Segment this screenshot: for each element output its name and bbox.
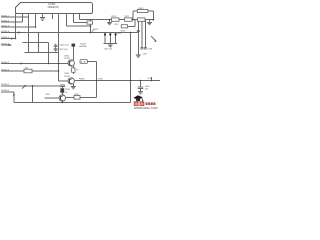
ground GND3 x149.5 (147, 22, 152, 24)
ground GND5 emitter V305 (71, 87, 76, 89)
ground GND4 x138.3 (136, 55, 141, 57)
ground GND6 under C340 (138, 92, 143, 94)
svg-text:C340: C340 (145, 86, 150, 88)
wire v x138.3 (137, 20, 139, 55)
svg-text:C304 104: C304 104 (60, 45, 70, 47)
svg-text:CN201-6: CN201-6 (1, 43, 10, 45)
node junction dots (15, 19, 154, 103)
wire pin7 rail vertical (58, 14, 60, 82)
capacitor bars small x138.3 (137, 30, 140, 31)
svg-text:R311: R311 (112, 16, 116, 18)
wire V316 output lead (66, 96, 97, 98)
wire gnd stub x149.5 (149, 20, 151, 22)
svg-text:CN202-1: CN202-1 (1, 62, 10, 64)
diode triple dark cap 1 (104, 34, 106, 38)
svg-text:CN203-1: CN203-1 (1, 84, 10, 86)
wire lead CN202-2 (1, 70, 24, 72)
wire lead CN201-3 (1, 26, 36, 28)
wire collector V304 (72, 47, 74, 61)
wire pin9 step (74, 14, 91, 23)
svg-text:CN201-2: CN201-2 (1, 20, 10, 22)
wire lead CN201-1 (1, 16, 29, 18)
svg-text:R317: R317 (46, 94, 51, 96)
svg-text:IC302: IC302 (80, 43, 87, 45)
ground GND2 x109.5 (107, 22, 112, 24)
svg-text:CN201-3: CN201-3 (1, 25, 10, 27)
transistor V316 (59, 95, 65, 101)
svg-text:CN202-2: CN202-2 (1, 69, 10, 71)
wire pin10 step (79, 14, 81, 20)
wire triple cap stems (105, 33, 116, 44)
wire v drop x32.5 (32, 86, 34, 103)
wire stack V316 stems (61, 86, 63, 95)
wire long rail y32.5 (1, 32, 139, 34)
wire mid h y42.5 (23, 42, 49, 44)
wire triple cap bottom (104, 44, 118, 48)
transistor V305 (68, 78, 74, 84)
svg-text:TO.DY: TO.DY (147, 78, 153, 80)
svg-text:C314: C314 (117, 33, 121, 35)
wire pin8 step (67, 14, 91, 27)
svg-text:R319: R319 (74, 94, 79, 96)
logo graduation cap icon (133, 95, 143, 101)
wire lead CN202-1 base of V304 (1, 63, 68, 65)
wire emitter V316 (61, 101, 63, 103)
svg-text:R313: R313 (94, 29, 99, 31)
resistor R318 box dark (60, 88, 64, 93)
svg-text:CN201-5: CN201-5 (1, 37, 10, 39)
wire lead CN203-1 (1, 85, 60, 87)
capacitor C305 dark body (72, 44, 76, 47)
logo small red text blocks (146, 102, 156, 105)
wire arrow deflection diagonal (151, 36, 155, 41)
svg-text:WWW.DZSC.COM: WWW.DZSC.COM (134, 106, 158, 110)
wire pin5 vertical (42, 14, 44, 18)
wire emitter V304 (72, 66, 74, 74)
wire pin2 vertical (22, 14, 24, 23)
wire V316 base lead (45, 97, 60, 99)
svg-text:V306: V306 (98, 79, 102, 81)
diode triple dark cap 2 (109, 34, 111, 38)
svg-text:104: 104 (145, 89, 148, 91)
resistor R313 box (138, 18, 146, 21)
svg-text:C1815: C1815 (64, 58, 71, 60)
wire v x145.3 (144, 20, 146, 48)
resistor R310 box on pin9 (87, 21, 93, 24)
wire pin3 vertical (28, 14, 30, 53)
svg-text:FB301: FB301 (79, 79, 85, 81)
svg-text:C317: C317 (143, 54, 148, 56)
ground GND1 under pin5 (40, 18, 45, 21)
wire pin6 vertical (52, 14, 54, 20)
wire lead CN201-6 (1, 44, 12, 46)
wire pin4 vertical (35, 14, 37, 28)
logo red character square 1 (134, 101, 139, 106)
wire pin1 vertical (15, 14, 17, 39)
wire junction drop x90.5 (90, 20, 92, 33)
capacitor C340 bars (138, 87, 144, 88)
wire stub x151.5 (151, 77, 153, 81)
wire SB box lead (128, 20, 135, 27)
wire v x141.8 (141, 20, 143, 48)
resistor R308 box emitter V304 (72, 68, 75, 72)
wire top-right bus (80, 19, 154, 21)
svg-text:C318: C318 (148, 48, 153, 50)
resistor R311 box (112, 18, 120, 21)
wire arrow on CN203-1 (22, 85, 26, 88)
op-amp U301 main IC block outline (16, 3, 93, 14)
wire R305 bridge (133, 11, 154, 20)
capacitor bars small x145.3 (144, 48, 147, 49)
svg-text:C1815: C1815 (64, 76, 71, 78)
svg-text:C305 104: C305 104 (59, 49, 69, 51)
svg-text:TDA9370: TDA9370 (47, 5, 59, 9)
svg-text:LA7840: LA7840 (79, 45, 87, 48)
logo red character square 2 (140, 101, 145, 106)
wire tick R313 (92, 29, 94, 31)
svg-text:CN201-4: CN201-4 (1, 31, 10, 33)
transistor V304 (68, 60, 74, 66)
node B+ label box (80, 60, 87, 64)
wire mid v x48.5 (48, 43, 50, 64)
svg-text:CN201-1: CN201-1 (1, 15, 10, 17)
svg-text:B+9V: B+9V (81, 62, 87, 64)
wire arrowheads on leads (9, 31, 24, 97)
wire emitter V305 (72, 84, 74, 86)
capacitor bars small x141.8 (140, 48, 143, 49)
wire mid v x38.5 (38, 33, 40, 53)
wire long v x130.5 (130, 33, 132, 103)
resistor R319 box (74, 96, 80, 100)
svg-text:C315 223: C315 223 (104, 49, 112, 51)
capacitor bars above R318 (60, 85, 65, 86)
diode triple dark cap 3 (114, 34, 116, 38)
wire gnd stub x109.5 (109, 20, 111, 22)
resistor R304 box on CN202-2 lead (24, 69, 32, 73)
wire main bus y80.5 (74, 80, 160, 82)
svg-text:R305: R305 (138, 8, 144, 10)
wire mid h y52.5 (25, 52, 59, 54)
wire lead CN201-5 (1, 38, 16, 40)
resistor SB box (121, 25, 127, 28)
capacitor C340 stub (140, 81, 142, 92)
wire lead CN203-2 (1, 92, 14, 103)
svg-text:R312: R312 (125, 16, 130, 18)
wire bottom bus (14, 102, 131, 104)
wire base V305 (59, 80, 69, 82)
resistor R305 top box (137, 9, 148, 12)
wire lead CN201-2 (1, 21, 23, 23)
capacitor C303 mid bars (53, 44, 57, 51)
svg-text:CN203-2: CN203-2 (1, 90, 10, 92)
resistor R312 box (125, 18, 133, 21)
wire lead CN202-2 cont (32, 70, 59, 72)
svg-text:C312: C312 (114, 24, 119, 26)
capacitor bars under triple (108, 45, 113, 46)
wire B+ box lead (87, 62, 96, 98)
